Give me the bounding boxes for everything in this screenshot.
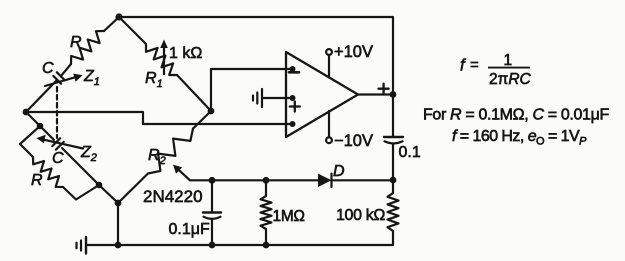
- node 0.1uF tap: [209, 177, 216, 184]
- resistor 1M: [265, 180, 267, 196]
- arrow Z2 (variable arrow through C): [37, 135, 84, 149]
- node top (bridge top): [115, 13, 122, 20]
- svg-text:R: R: [31, 172, 43, 189]
- svg-text:R1: R1: [145, 70, 163, 90]
- potentiometer R1 1k: [146, 44, 177, 75]
- dashed gang link: [56, 87, 58, 138]
- wire bridge bottom down to ground rail: [117, 203, 119, 245]
- node 1M on rail: [263, 242, 270, 249]
- wire feedback line: [190, 179, 318, 181]
- node left (bridge left): [23, 109, 30, 116]
- svg-text:0.1μF: 0.1μF: [169, 221, 210, 238]
- node 1M tap: [263, 177, 270, 184]
- wire -10V supply: [328, 111, 330, 137]
- transistor Q1 2N4220 (JFET as variable resistor R2): [118, 174, 148, 204]
- svg-text:R: R: [70, 34, 82, 51]
- node feedback right: [390, 177, 397, 184]
- pin dot non-inverting: [290, 121, 296, 127]
- svg-text:C: C: [52, 150, 64, 167]
- resistor 100k: [392, 180, 394, 193]
- node Z2 right junction: [96, 182, 103, 189]
- plus sign (output): [379, 84, 389, 94]
- wire capacitor to Z2 right junction: [62, 148, 99, 185]
- wire top rail: [119, 17, 393, 95]
- svg-text:Z1: Z1: [83, 68, 100, 88]
- wire ground rail: [86, 244, 393, 246]
- wire output node down to coupling cap: [392, 95, 394, 137]
- wire left node to non-inverting input (stepped): [26, 112, 293, 124]
- wire tap down to 0.1uF cap: [211, 180, 213, 211]
- pin dot reference: [290, 95, 296, 101]
- svg-text:Z2: Z2: [80, 144, 97, 164]
- svg-text:1MΩ: 1MΩ: [273, 208, 305, 225]
- arrow Z1 (variable arrow through C): [45, 74, 83, 87]
- terminal +10V: [326, 49, 332, 55]
- diode D: [318, 174, 332, 187]
- svg-text:D: D: [333, 163, 345, 180]
- svg-text:C: C: [42, 60, 54, 77]
- formula f = 1/(2 pi RC): [460, 52, 532, 88]
- wire left node to Z2 top junction: [26, 112, 40, 126]
- wire op-amp output: [358, 93, 393, 95]
- svg-text:−10V: −10V: [334, 132, 373, 150]
- svg-text:R2: R2: [148, 147, 166, 167]
- node 0.1uF on rail: [209, 242, 216, 249]
- arrow R1 wiper: [160, 40, 168, 75]
- wire capacitor to left node: [26, 80, 57, 112]
- svg-text:For R = 0.1MΩ, C = 0.01μF: For R = 0.1MΩ, C = 0.01μF: [423, 107, 609, 124]
- svg-text:1 kΩ: 1 kΩ: [169, 45, 202, 62]
- plus sign (non-inverting): [290, 102, 300, 112]
- svg-text:0.1: 0.1: [399, 144, 421, 161]
- node Z2 top junction: [37, 123, 44, 130]
- wire R1 to junction J: [177, 75, 211, 111]
- wire Z2 upper branch to capacitor: [40, 126, 54, 140]
- wire junction to bridge bottom: [99, 185, 118, 203]
- ground (main): [77, 237, 87, 254]
- minus sign (inverting): [289, 71, 299, 74]
- wire cap to feedback node: [392, 144, 394, 181]
- resistor R (lower, Z2 branch): [33, 157, 63, 187]
- ground (op-amp reference): [253, 89, 262, 107]
- wire bridge upper-right arm to R1: [119, 17, 146, 44]
- svg-text:1: 1: [504, 52, 513, 69]
- capacitor 0.1uF: [203, 213, 221, 219]
- capacitor 0.1 (coupling): [384, 137, 403, 143]
- capacitor C (variable, Z2 branch): [52, 138, 63, 149]
- svg-text:=: =: [470, 57, 479, 74]
- resistor R (upper arm): [71, 31, 104, 64]
- wire bridge upper-left arm to resistor: [104, 17, 119, 31]
- node bridge bottom: [115, 200, 122, 207]
- wire +10V supply: [328, 55, 330, 77]
- wire diode to feedback node: [332, 179, 394, 181]
- node junction J (R1/R2 tap): [208, 108, 215, 115]
- pin dot inverting: [290, 66, 296, 72]
- svg-text:2N4220: 2N4220: [143, 187, 203, 206]
- wire cap to ground rail: [211, 219, 213, 245]
- arrow gate wiper: [173, 165, 190, 181]
- node output: [390, 91, 397, 98]
- svg-text:2πRC: 2πRC: [489, 71, 532, 88]
- svg-text:f: f: [460, 57, 467, 75]
- svg-text:f = 160 Hz, eO = 1VP: f = 160 Hz, eO = 1VP: [452, 128, 587, 148]
- wire Z2 lower branch left side: [20, 126, 40, 157]
- wire lower branch to bottom corner and up to junction: [63, 185, 99, 200]
- svg-text:100 kΩ: 100 kΩ: [336, 207, 385, 224]
- op-amp U1: [286, 52, 358, 137]
- wire ground to middle input: [262, 97, 293, 99]
- svg-text:+10V: +10V: [334, 43, 373, 61]
- node bridge bottom on rail: [115, 242, 122, 249]
- capacitor C (variable, Z1): [53, 72, 64, 83]
- wire J up and to inverting input: [211, 69, 293, 111]
- terminal -10V: [326, 137, 332, 143]
- wire resistor to capacitor C1: [61, 64, 71, 76]
